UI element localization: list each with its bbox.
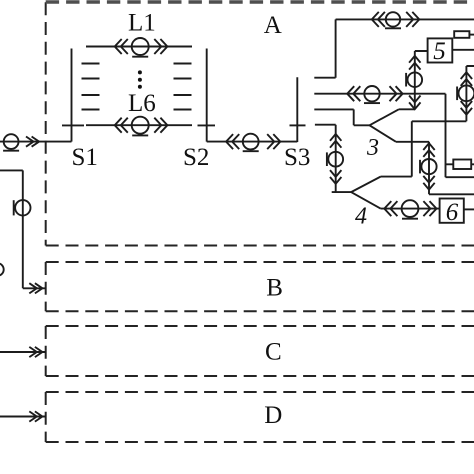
- svg-text:S3: S3: [284, 144, 310, 171]
- svg-text:L1: L1: [128, 10, 156, 37]
- svg-text:5: 5: [433, 38, 446, 65]
- svg-text:S1: S1: [72, 144, 98, 171]
- svg-text:D: D: [264, 402, 282, 429]
- svg-text:6: 6: [446, 199, 459, 226]
- svg-text:C: C: [265, 339, 282, 366]
- svg-text:3: 3: [366, 135, 379, 161]
- svg-text:A: A: [264, 12, 282, 39]
- svg-text:S2: S2: [183, 144, 209, 171]
- svg-text:B: B: [266, 275, 283, 302]
- svg-text:L6: L6: [128, 90, 156, 117]
- svg-text:4: 4: [355, 203, 367, 229]
